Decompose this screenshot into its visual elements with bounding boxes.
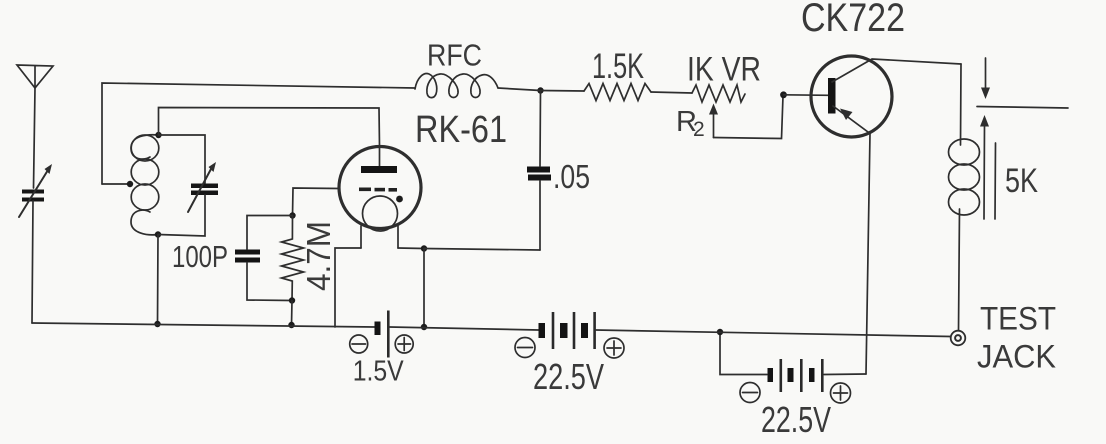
wire wiper bracket <box>714 96 784 139</box>
wire tube grid lead <box>293 188 340 216</box>
svg-text:2: 2 <box>693 118 705 141</box>
tube plate bar <box>361 166 397 173</box>
bottom rail mid segment <box>390 327 539 330</box>
resistor 4.7M <box>282 216 304 301</box>
B1 plus terminal <box>395 335 413 353</box>
down arrow at output <box>981 58 990 99</box>
battery B2 22.5V <box>539 312 596 349</box>
svg-text:.05: .05 <box>553 158 590 195</box>
wire emitter to battery B3 <box>824 373 866 376</box>
B3 plus terminal <box>831 383 851 403</box>
svg-text:5K: 5K <box>1005 162 1038 200</box>
node rail at grid-leak line <box>288 322 294 328</box>
svg-text:4.7M: 4.7M <box>300 221 337 291</box>
node rail at tube line <box>421 324 427 330</box>
node grid network bottom <box>289 297 295 303</box>
wire RFC to node <box>498 88 541 91</box>
node tube-cap junction <box>421 245 427 251</box>
tube grid (dashed) <box>359 188 397 192</box>
wire 100P bottom to node <box>247 263 292 301</box>
bottom rail left segment <box>32 323 375 327</box>
wire tube right leg to node <box>398 247 424 250</box>
wire 1.5K to 1K VR <box>651 92 692 93</box>
wire top-left corner down to coil tap <box>102 83 415 184</box>
wire to 100P branch <box>247 216 293 250</box>
wire 5K coil bottom to jack <box>959 209 960 331</box>
up arrow at output <box>980 115 989 219</box>
test jack inner <box>955 335 961 341</box>
svg-text:TEST: TEST <box>980 301 1056 337</box>
inductor RFC <box>415 74 498 98</box>
wire node down to rail <box>291 301 294 326</box>
capacitor 100P <box>235 250 260 263</box>
trimmer capacitor C2 <box>188 162 218 212</box>
variable capacitor C1 (antenna trimmer) <box>19 164 52 217</box>
wire coil bottom down to rail <box>157 235 160 325</box>
wire .05 bottom down <box>539 181 541 250</box>
emitter arrow <box>840 109 853 121</box>
capacitor .05 <box>527 167 551 181</box>
B2 plus terminal <box>604 338 624 358</box>
wire node down to rail <box>423 249 425 328</box>
B1 minus terminal <box>350 335 368 353</box>
bottom rail right segment <box>596 330 951 337</box>
R2 wiper arrow <box>709 104 718 138</box>
wire node to 1.5K <box>541 90 585 93</box>
wire coil tap <box>102 183 128 185</box>
wire B3 to rail tap <box>720 333 767 375</box>
wire node to .05 cap bottom <box>424 249 540 251</box>
wire node to .05 cap <box>539 91 542 167</box>
svg-text:22.5V: 22.5V <box>533 356 604 397</box>
svg-text:RFC: RFC <box>427 38 482 73</box>
transistor base bar <box>828 78 836 114</box>
potentiometer 1K VR <box>692 85 745 102</box>
wire antenna stem to variable capacitor <box>34 88 36 188</box>
node coil tap <box>127 181 133 187</box>
output line <box>977 107 1068 109</box>
battery B3 22.5V <box>768 359 824 392</box>
node after RFC <box>537 87 543 93</box>
wire trimmer bottom to coil bottom <box>158 195 205 236</box>
tube cathode circle <box>363 196 398 231</box>
svg-text:CK722: CK722 <box>801 0 905 40</box>
B3 minus terminal <box>740 383 760 403</box>
transistor Q1 CK722 envelope <box>811 56 892 137</box>
resistor 1.5K <box>584 84 651 101</box>
node coil bottom <box>155 231 161 237</box>
wire VR to transistor base <box>784 94 830 97</box>
tube U1 RK-61 envelope <box>339 147 421 229</box>
transistor emitter lead <box>833 106 870 374</box>
wire coil top node up and across to tube plate <box>159 108 380 167</box>
svg-text:22.5V: 22.5V <box>761 399 831 439</box>
node grid network top <box>289 212 295 218</box>
svg-text:IK VR: IK VR <box>687 51 761 89</box>
node rail at coil line <box>154 321 160 327</box>
wire tube left leg to rail <box>335 248 361 327</box>
svg-text:1.5K: 1.5K <box>592 47 644 86</box>
B2 minus terminal <box>515 338 535 358</box>
wire C1 to bottom rail <box>32 201 33 323</box>
node VR right end <box>780 91 787 98</box>
node coil top <box>155 132 161 138</box>
inductor 5K primary <box>949 139 980 215</box>
antenna <box>17 65 53 88</box>
svg-text:1.5V: 1.5V <box>353 356 405 388</box>
tube filament legs <box>361 226 398 248</box>
transistor collector lead <box>832 59 961 82</box>
svg-text:JACK: JACK <box>977 339 1056 375</box>
battery B1 1.5V <box>375 311 390 358</box>
test jack outer <box>951 331 966 346</box>
wire coil top node to trimmer C2 <box>159 135 206 183</box>
tube dot <box>396 196 403 203</box>
wire collector down to 5K coil <box>960 64 963 145</box>
svg-text:100P: 100P <box>172 239 228 274</box>
5K core line <box>994 143 997 219</box>
coil L1 (tank coil, 4 turns) <box>131 135 159 235</box>
svg-text:RK-61: RK-61 <box>415 109 507 151</box>
node rail at B3 tap <box>717 329 723 335</box>
